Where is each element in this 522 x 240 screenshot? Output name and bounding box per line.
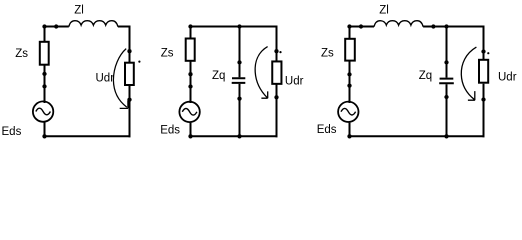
node c2 right lower (274, 95, 278, 99)
arrow Udr (c2) (255, 47, 267, 98)
wire capacitor branch lower c3 (446, 84, 448, 136)
node c2 bottom-left junction (188, 134, 192, 138)
node c2 top-left junction (188, 24, 192, 28)
resistor Udr (c2) (272, 61, 281, 83)
node c3 top third dot (431, 24, 435, 28)
inductor Zl (c3) (374, 21, 423, 27)
node c1 right lower (127, 97, 131, 101)
wire left vertical upper c2 (190, 26, 192, 39)
node c1 top-left junction (42, 24, 46, 28)
wire left vertical lower c3 (349, 123, 351, 137)
stray dot c1 (138, 61, 140, 63)
node c1 right upper (127, 49, 131, 53)
wire left vertical upper c1 (44, 26, 46, 42)
svg-text:Zs: Zs (161, 48, 174, 60)
svg-text:Zq: Zq (419, 70, 432, 82)
wire right vertical lower c3 (483, 84, 485, 138)
svg-text:Zl: Zl (74, 5, 84, 17)
resistor Udr (c3) (479, 60, 488, 83)
svg-text:Udr: Udr (285, 75, 304, 87)
inductor Zl (c1) (69, 21, 118, 27)
node c1 bottom junction (42, 134, 46, 138)
capacitor Zq (c2) (232, 78, 246, 83)
node c2 cap upper (237, 60, 241, 64)
source Eds (c2) (179, 102, 199, 122)
node c3 cap upper (444, 60, 448, 64)
node c2 cap lower (237, 96, 241, 100)
svg-text:Eds: Eds (160, 124, 180, 136)
wire left vertical middle c1 (44, 65, 46, 103)
wire left vertical upper c3 (349, 26, 351, 39)
node c3 bottom-left junction (347, 134, 351, 138)
node c3 left vertical dot b (347, 83, 351, 87)
resistor Zs (c2) (186, 39, 195, 61)
node c3 top-left junction (347, 24, 351, 28)
wire top left segment c3 (350, 26, 375, 28)
wire bottom c1 (45, 135, 131, 137)
arrow Udr (c3) (461, 47, 476, 100)
wire capacitor branch upper c3 (446, 26, 448, 78)
wire top left segment c1 (45, 26, 69, 28)
resistor Udr (c1) (125, 63, 134, 85)
svg-text:Eds: Eds (317, 124, 337, 136)
wire right vertical lower c2 (276, 84, 278, 138)
node c3 right lower (481, 97, 485, 101)
svg-text:Udr: Udr (96, 73, 115, 85)
wire bottom c2 (191, 135, 278, 137)
node c3 bottom cap junction (444, 134, 448, 138)
wire bottom c3 (350, 135, 485, 137)
wire left vertical lower c2 (190, 123, 192, 137)
node c2 right upper (274, 49, 278, 53)
source Eds (c3) (338, 102, 358, 122)
wire right vertical upper c1 (129, 26, 131, 63)
stray dot c3 (487, 52, 489, 54)
node c2 left vertical dot b (188, 84, 192, 88)
node c1 left vertical dot b (42, 84, 46, 88)
node c3 top cap junction (444, 24, 448, 28)
node c1 left vertical dot a (42, 72, 46, 76)
arrow Udr (c1) (113, 49, 127, 108)
wire top right segment c3 (423, 26, 484, 28)
wire right vertical upper c3 (483, 26, 485, 60)
node c2 top cap junction (237, 24, 241, 28)
node c2 left vertical dot a (188, 72, 192, 76)
wire right vertical upper c2 (276, 26, 278, 62)
wire capacitor branch upper c2 (239, 26, 241, 78)
svg-text:Zq: Zq (212, 70, 225, 82)
wire right vertical lower c1 (129, 85, 131, 137)
svg-text:Eds: Eds (2, 126, 22, 138)
wire left vertical middle c3 (349, 61, 351, 103)
node c3 left vertical dot a (347, 72, 351, 76)
resistor Zs (c3) (345, 39, 355, 61)
source Eds (c1) (33, 101, 53, 121)
svg-text:Zs: Zs (321, 48, 334, 60)
capacitor Zq (c3) (439, 79, 454, 84)
wire left vertical lower c1 (44, 122, 46, 136)
node c1 top second dot (54, 24, 58, 28)
svg-text:Udr: Udr (498, 72, 517, 84)
svg-text:Zs: Zs (15, 48, 28, 60)
node c3 top second dot (359, 24, 363, 28)
wire left vertical middle c2 (190, 61, 192, 103)
stray dot c2 (279, 51, 281, 53)
node c3 right upper (481, 49, 485, 53)
svg-text:Zl: Zl (379, 5, 389, 17)
wire capacitor branch lower c2 (239, 84, 241, 136)
node c3 cap lower (444, 95, 448, 99)
wire top c2 (191, 26, 278, 28)
node c2 bottom cap junction (237, 134, 241, 138)
wire top right segment c1 (118, 26, 131, 28)
resistor Zs (c1) (40, 42, 49, 65)
